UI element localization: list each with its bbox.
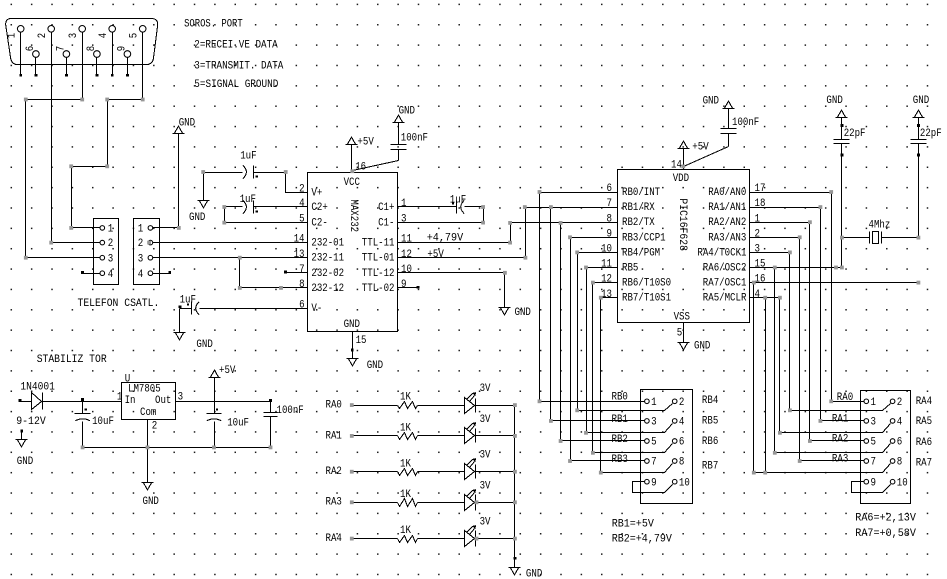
svg-text:2: 2: [755, 228, 761, 240]
svg-text:1K: 1K: [400, 423, 411, 435]
svg-text:STABILIZ TOR: STABILIZ TOR: [37, 354, 108, 366]
svg-text:5: 5: [299, 214, 305, 226]
svg-text:GND: GND: [179, 117, 195, 129]
ground at C8: [703, 96, 735, 109]
svg-text:RB2/TX: RB2/TX: [622, 217, 655, 229]
U2 pin 16 stub and number: [352, 145, 367, 174]
svg-text:3: 3: [138, 253, 144, 265]
svg-text:RA6: RA6: [916, 437, 932, 449]
U3 pin 5 stub to ground: [677, 323, 711, 353]
svg-text:15: 15: [755, 259, 766, 271]
svg-text:TTL-12: TTL-12: [362, 268, 395, 280]
svg-text:8: 8: [299, 279, 305, 291]
svg-text:232-12: 232-12: [311, 283, 344, 295]
svg-text:10: 10: [897, 477, 908, 489]
svg-text:LM7805: LM7805: [128, 383, 161, 395]
svg-text:RA3/AN3: RA3/AN3: [708, 232, 746, 244]
svg-text:6: 6: [679, 437, 685, 449]
svg-text:Com: Com: [140, 407, 156, 419]
wire net SGND DB9 pin5 to J2 pin1: [72, 33, 143, 228]
wire net RA4 to J5 pin2: [757, 253, 891, 411]
U3 right pin numbers: [755, 183, 766, 301]
svg-text:9: 9: [651, 477, 657, 489]
wire net TXD DB9 pin3 to J2 pin3: [26, 33, 83, 258]
wire net RB5 to J4 pin4: [587, 268, 673, 433]
svg-text:RA5/MCLR: RA5/MCLR: [703, 293, 747, 305]
svg-text:13: 13: [601, 289, 612, 301]
wire net RA2 to J5 pin5: [757, 223, 865, 446]
svg-text:RA0: RA0: [326, 400, 342, 412]
U3 left pin stubs: [607, 193, 618, 298]
svg-text:RB2: RB2: [612, 434, 628, 446]
svg-text:9: 9: [871, 477, 877, 489]
svg-text:4: 4: [108, 269, 114, 281]
svg-text:3: 3: [401, 214, 407, 226]
U3 right pin stubs: [750, 193, 757, 298]
svg-text:RA1/AN1: RA1/AN1: [708, 202, 746, 214]
svg-text:RB7/T10S1: RB7/T10S1: [622, 293, 671, 305]
svg-text:6: 6: [25, 46, 37, 51]
svg-text:7: 7: [56, 46, 68, 51]
svg-text:13: 13: [294, 249, 305, 261]
svg-text:GND: GND: [399, 106, 415, 118]
svg-text:18: 18: [755, 198, 766, 210]
svg-text:RA0/AN0: RA0/AN0: [708, 187, 746, 199]
wire net RB6 to J4 pin6: [593, 283, 673, 453]
svg-text:RB6/T10S0: RB6/T10S0: [622, 278, 671, 290]
connector J4 box: [641, 390, 693, 504]
capacitor C11 100nF at output: [264, 402, 304, 448]
svg-text:14: 14: [671, 159, 682, 171]
svg-text:RA1: RA1: [326, 430, 342, 442]
svg-text:1: 1: [108, 224, 114, 236]
svg-text:4Mhz: 4Mhz: [869, 219, 891, 231]
svg-text:9: 9: [607, 228, 613, 240]
wire net RB1 to J4 pin3: [551, 208, 645, 421]
node RA4 LED branch label: [326, 533, 342, 545]
capacitor C7 22pF: [911, 118, 942, 238]
svg-text:10: 10: [601, 244, 612, 256]
LED D4 3V: [418, 450, 515, 480]
svg-text:4: 4: [299, 198, 305, 210]
svg-text:8: 8: [607, 213, 613, 225]
svg-text:RA4: RA4: [916, 396, 932, 408]
resistor R1 1K: [352, 392, 418, 409]
svg-text:RA4: RA4: [326, 533, 342, 545]
J5 right pin circles and numbers: [890, 397, 907, 489]
power +5V symbol at U2 pin 16: [346, 137, 375, 149]
LED D3 3V: [418, 414, 515, 444]
svg-text:232-11: 232-11: [311, 253, 344, 265]
J1 pins 1-5 circles: [17, 26, 146, 33]
U3 pin 14 stub and number: [671, 149, 684, 172]
connector J1 DB9 SOROS PORT outline: [6, 18, 158, 64]
svg-text:3V: 3V: [480, 383, 491, 395]
svg-text:GND: GND: [143, 496, 159, 508]
svg-text:1K: 1K: [400, 458, 411, 470]
resistor R2 1K: [352, 423, 418, 440]
svg-text:5: 5: [651, 437, 657, 449]
svg-text:2: 2: [679, 397, 685, 409]
svg-text:1: 1: [651, 397, 657, 409]
svg-text:2: 2: [37, 33, 49, 38]
J4 net labels RB4-RB7: [702, 395, 718, 472]
svg-text:Out: Out: [155, 395, 171, 407]
svg-text:1uF: 1uF: [240, 151, 256, 163]
svg-text:RB5: RB5: [622, 263, 638, 275]
svg-text:V+: V+: [311, 187, 322, 199]
svg-text:2: 2: [299, 183, 305, 195]
svg-text:RA7=+0,58V: RA7=+0,58V: [855, 528, 916, 540]
LED D2 3V: [418, 383, 515, 413]
svg-text:10: 10: [679, 477, 690, 489]
svg-text:3V: 3V: [480, 480, 491, 492]
svg-text:RA5: RA5: [916, 416, 932, 428]
svg-text:3V: 3V: [480, 414, 491, 426]
U2 right pin numbers: [401, 198, 412, 291]
svg-text:RB3/CCP1: RB3/CCP1: [622, 232, 666, 244]
svg-text:1N4001: 1N4001: [20, 382, 55, 394]
svg-text:8: 8: [679, 457, 685, 469]
svg-text:8: 8: [86, 46, 98, 51]
svg-text:PIC16F628: PIC16F628: [676, 198, 688, 251]
svg-text:RA1: RA1: [832, 413, 848, 425]
svg-text:GND: GND: [17, 456, 33, 468]
wire D1 to U1 input: [43, 398, 122, 401]
LED D6 3V: [418, 517, 515, 547]
U1 pin numbers: [117, 392, 183, 433]
svg-text:VCC: VCC: [344, 177, 360, 189]
J4 pin9 pin10 tie wire: [633, 482, 673, 493]
U3 left pin numbers: [601, 183, 612, 301]
wire net RB7 to J4 pin8: [601, 298, 673, 473]
svg-text:22pF: 22pF: [844, 128, 866, 140]
node RA2 LED branch label: [326, 466, 342, 478]
wire J3 pin2 to U2 pin 14: [153, 242, 294, 244]
power +5V symbol at U3 pin 14: [678, 141, 710, 153]
svg-text:4: 4: [897, 417, 903, 429]
svg-text:RA7: RA7: [916, 458, 932, 470]
svg-text:1K: 1K: [400, 525, 411, 537]
capacitor C6 22pF: [834, 118, 866, 268]
svg-text:11: 11: [401, 234, 412, 246]
J2 pin numbers 1-4: [108, 224, 114, 281]
svg-text:+5V: +5V: [357, 137, 374, 149]
wire net RA3 to J5 pin7: [757, 238, 865, 466]
svg-text:10uF: 10uF: [227, 417, 249, 429]
svg-text:RB1=+5V: RB1=+5V: [612, 518, 655, 530]
svg-text:1: 1: [871, 397, 877, 409]
J3 pin numbers 1-4: [138, 224, 144, 281]
svg-text:RA2: RA2: [326, 466, 342, 478]
svg-text:1K: 1K: [400, 489, 411, 501]
capacitor C5 100nF at U2 VCC: [353, 123, 429, 171]
svg-text:GND: GND: [189, 212, 205, 224]
svg-text:GND: GND: [367, 360, 383, 372]
wire U2 pin10 TTL-12 to ground: [418, 273, 531, 320]
wire net RB4 to J4 pin2: [578, 253, 673, 411]
wire net RA0 to J5 pin1: [757, 193, 865, 404]
svg-text:5: 5: [128, 33, 140, 38]
capacitor C10 10uF at output: [207, 402, 250, 448]
svg-text:C2-: C2-: [311, 218, 327, 230]
svg-text:100nF: 100nF: [277, 405, 304, 417]
ground at C6: [826, 95, 847, 118]
svg-text:100nF: 100nF: [401, 133, 428, 145]
svg-text:MAX232: MAX232: [347, 199, 359, 232]
svg-text:TELEFON CSATL.: TELEFON CSATL.: [78, 298, 160, 310]
svg-text:RA6=+2,13V: RA6=+2,13V: [855, 513, 916, 525]
wire net RXD DB9 pin2 to J2 pin2: [52, 33, 83, 243]
wire net +5V U2 pin12 to PIC RB1: [418, 208, 607, 261]
wire net OSC2 U3 RA6 to crystal: [757, 267, 842, 269]
svg-text:RB6: RB6: [702, 436, 718, 448]
svg-text:C2+: C2+: [311, 202, 327, 214]
svg-text:16: 16: [355, 161, 366, 173]
svg-text:RB2=+4,79V: RB2=+4,79V: [612, 534, 673, 546]
svg-text:1: 1: [401, 198, 407, 210]
svg-text:232-02: 232-02: [311, 268, 344, 280]
J1 pin numbers 1-9 rotated: [6, 33, 140, 52]
U2 right pin labels: [362, 202, 395, 295]
wire net RB3 to J4 pin7: [571, 238, 645, 461]
svg-text:V-: V-: [311, 303, 322, 315]
U2 pin 15 stub to ground: [347, 332, 384, 373]
U2 left pin labels: [311, 187, 344, 315]
resistor R3 1K: [352, 458, 418, 475]
svg-text:7: 7: [607, 198, 613, 210]
power +5V symbol at U1 output: [209, 365, 236, 402]
J5 pin9 pin10 tie wire: [852, 482, 891, 493]
capacitor C8 100nF at U3 VDD: [684, 109, 760, 167]
svg-text:RB4/PGM: RB4/PGM: [622, 247, 660, 259]
svg-text:4: 4: [138, 269, 144, 281]
wire net RA5 to J5 pin4: [757, 298, 891, 433]
svg-text:2: 2: [897, 397, 903, 409]
connector J3 telephone box: [134, 219, 160, 285]
svg-text:GND: GND: [515, 307, 531, 319]
svg-text:5: 5: [871, 437, 877, 449]
svg-text:RA7/OSC1: RA7/OSC1: [703, 278, 747, 290]
wire net RA1 to J5 pin3: [757, 208, 865, 426]
crystal X1 4MHz: [842, 219, 919, 243]
svg-text:14: 14: [294, 234, 305, 246]
capacitor C9 10uF at input: [75, 402, 114, 448]
svg-text:22pF: 22pF: [920, 128, 942, 140]
svg-text:7: 7: [651, 457, 657, 469]
svg-text:RA2/AN2: RA2/AN2: [708, 217, 746, 229]
capacitor C4 1uF V- to GND: [174, 294, 294, 351]
svg-text:3=TRANSMIT. DATA: 3=TRANSMIT. DATA: [194, 60, 284, 72]
U2 left pin numbers: [294, 183, 305, 311]
wire net RB0 to J4 pin1: [540, 193, 645, 402]
svg-text:+5V: +5V: [219, 365, 236, 377]
svg-text:TTL-11: TTL-11: [362, 238, 395, 250]
svg-text:RB4: RB4: [702, 395, 718, 407]
svg-text:GND: GND: [526, 569, 542, 579]
svg-text:SOROS. PORT: SOROS. PORT: [184, 18, 243, 30]
svg-text:In: In: [125, 395, 136, 407]
svg-text:7: 7: [299, 264, 305, 276]
J4 net labels RB0-RB3: [612, 391, 628, 466]
svg-text:3: 3: [108, 253, 114, 265]
wire net RB2 to J4 pin5: [561, 223, 645, 441]
svg-text:1: 1: [755, 213, 761, 225]
svg-text:+5V: +5V: [427, 249, 444, 261]
svg-text:GND: GND: [344, 319, 360, 331]
svg-text:17: 17: [755, 183, 766, 195]
wire net +4.79V U2 pin11 to PIC RB2: [418, 223, 607, 245]
svg-text:1K: 1K: [400, 392, 411, 404]
LED common ground wire: [509, 406, 543, 579]
svg-text:9: 9: [117, 46, 129, 51]
node RA1 LED branch label: [326, 430, 342, 442]
svg-text:TTL-02: TTL-02: [362, 283, 395, 295]
svg-text:RA2: RA2: [832, 434, 848, 446]
svg-text:RB5: RB5: [702, 415, 718, 427]
svg-text:+4,79V: +4,79V: [427, 232, 464, 244]
svg-text:RB7: RB7: [702, 460, 718, 472]
resistor R4 1K: [352, 489, 418, 507]
svg-text:10uF: 10uF: [92, 416, 114, 428]
svg-text:11: 11: [601, 259, 612, 271]
svg-text:4: 4: [755, 289, 761, 301]
op-amp U2 MAX232 body: [308, 173, 398, 332]
svg-text:RA3: RA3: [326, 497, 342, 509]
svg-text:RA6/OSC2: RA6/OSC2: [703, 263, 747, 275]
svg-text:2=RECEI.VE DATA: 2=RECEI.VE DATA: [194, 39, 278, 51]
U2 right pin stubs: [398, 207, 420, 289]
J5 left pin circles and numbers: [864, 397, 876, 489]
svg-text:16: 16: [755, 274, 766, 286]
svg-text:+5V: +5V: [692, 141, 709, 153]
microcontroller U3 PIC16F628 body: [618, 170, 750, 323]
svg-text:RB0/INT: RB0/INT: [622, 187, 660, 199]
svg-text:9-12V: 9-12V: [16, 416, 46, 428]
svg-text:3: 3: [68, 33, 80, 38]
svg-text:232-01: 232-01: [311, 238, 344, 250]
svg-text:6: 6: [897, 437, 903, 449]
svg-text:RB1/RX: RB1/RX: [622, 202, 655, 214]
svg-text:3: 3: [651, 417, 657, 429]
svg-text:9: 9: [401, 279, 407, 291]
svg-text:1: 1: [117, 392, 123, 404]
svg-text:1: 1: [138, 224, 144, 236]
svg-text:RA3: RA3: [832, 454, 848, 466]
svg-text:5=SIGNAL GROUND: 5=SIGNAL GROUND: [194, 79, 278, 91]
J4 right pin circles and numbers: [672, 397, 689, 489]
capacitor C1 1uF C1+ to C1-: [418, 195, 484, 223]
svg-text:2: 2: [152, 420, 158, 432]
svg-text:RB1: RB1: [612, 414, 628, 426]
ground at C5: [393, 106, 416, 123]
capacitor C3 1uF V+ to GND: [189, 151, 294, 224]
resistor R5 1K: [352, 525, 418, 542]
svg-text:1: 1: [6, 33, 18, 38]
svg-text:GND: GND: [826, 95, 842, 107]
LED D5 3V: [418, 480, 515, 510]
U2 left pin stubs: [284, 193, 307, 309]
svg-text:7: 7: [871, 457, 877, 469]
svg-text:4: 4: [98, 33, 110, 38]
svg-text:GND: GND: [694, 340, 710, 352]
svg-text:6: 6: [299, 299, 305, 311]
svg-text:3V: 3V: [480, 517, 491, 529]
svg-text:10: 10: [401, 264, 412, 276]
svg-text:12: 12: [601, 274, 612, 286]
svg-text:GND: GND: [913, 95, 929, 107]
svg-text:5: 5: [677, 328, 683, 340]
svg-text:6: 6: [607, 183, 613, 195]
svg-text:TTL-01: TTL-01: [362, 253, 395, 265]
svg-text:8: 8: [897, 457, 903, 469]
svg-text:15: 15: [356, 335, 367, 347]
svg-text:VDD: VDD: [673, 173, 689, 185]
svg-text:3V: 3V: [480, 450, 491, 462]
svg-text:C1-: C1-: [378, 218, 394, 230]
J1 unconnected pin stubs: [19, 33, 129, 77]
J2 pin circles and stubs: [81, 226, 105, 276]
svg-text:2: 2: [108, 238, 114, 250]
ground symbol at J3 pin1: [170, 117, 196, 227]
wire net RA7 to J5 pin8: [754, 283, 891, 473]
U3 left pin labels RB0-RB7: [622, 187, 671, 305]
wire J3 pin3 to U2 pin 13 and pin 8: [153, 258, 294, 288]
U3 right pin labels RA0-RA7: [697, 187, 747, 305]
svg-text:GND: GND: [196, 339, 212, 351]
diode D1 1N4001: [19, 382, 55, 410]
capacitor C2 1uF C2+ to C2-: [225, 194, 294, 223]
svg-text:3: 3: [871, 417, 877, 429]
J1 pins 6-9 circles: [33, 51, 131, 58]
svg-text:3: 3: [755, 244, 761, 256]
wire net OSC1 U3 RA7 to crystal: [757, 282, 919, 284]
J4 left pin circles and numbers: [645, 397, 657, 489]
svg-text:12: 12: [401, 249, 412, 261]
wire junction markers: [24, 98, 920, 541]
ground rail wire: [83, 447, 271, 449]
svg-text:RA4/T0CK1: RA4/T0CK1: [697, 247, 746, 259]
wire net RA5 tie vertical: [765, 298, 767, 473]
connector J5 box: [861, 391, 911, 504]
wire U1 output +5V rail: [176, 399, 272, 402]
svg-text:RB3: RB3: [612, 454, 628, 466]
J3 pin circles and stubs: [148, 226, 171, 276]
svg-text:100nF: 100nF: [732, 117, 759, 129]
voltage regulator U1 LM7805 body: [122, 374, 176, 420]
svg-text:GND: GND: [703, 96, 719, 108]
U1 pin 2 to ground: [142, 420, 159, 508]
svg-text:RA0: RA0: [837, 392, 853, 404]
svg-text:VSS: VSS: [674, 312, 690, 324]
ground symbol at input: [16, 430, 34, 469]
wire net RA6 to J5 pin6: [775, 268, 891, 453]
svg-text:4: 4: [679, 417, 685, 429]
svg-text:2: 2: [138, 238, 144, 250]
connector J2 telephone box: [94, 219, 119, 285]
J5 net labels RA4-RA7: [916, 396, 932, 470]
node RA0 LED branch label: [326, 400, 342, 412]
svg-text:C1+: C1+: [378, 202, 394, 214]
node RA3 LED branch label: [326, 497, 342, 509]
ground at C7: [913, 95, 930, 118]
svg-text:RB0: RB0: [612, 391, 628, 403]
